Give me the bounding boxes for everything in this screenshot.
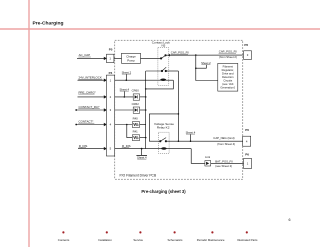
svg-text:CR60: CR60 (132, 89, 140, 93)
nav Schematics (174, 231, 176, 233)
connector P6 pin3 (244, 43, 252, 59)
svg-text:R41: R41 (133, 130, 139, 134)
node dot CONTACT_Rtn* end (75, 109, 77, 111)
charge pump U1 (122, 53, 141, 63)
filament regulator block (218, 63, 238, 91)
wire node to filament regulator (196, 55, 218, 80)
wire CR62 to bus (140, 109, 146, 111)
node relay feed (178, 113, 180, 115)
svg-text:Installation: Installation (98, 238, 112, 242)
key actuator (160, 78, 166, 81)
svg-text:Relay K2: Relay K2 (157, 126, 170, 130)
svg-text:Periodic Maintenance: Periodic Maintenance (197, 238, 225, 242)
horizontal pink header line (0, 28, 320, 30)
wire P4-4 to R40 (115, 124, 133, 126)
arrow into P4-1 (104, 79, 107, 82)
wire interlock loop top (146, 70, 162, 72)
flag Sheet 4 (pre_chrg) (119, 87, 129, 91)
wire sheet4 flag stub right (190, 134, 192, 141)
wire P4-3 to CR62 (115, 109, 134, 111)
relay coil (161, 147, 166, 150)
svg-text:P4: P4 (109, 71, 113, 75)
svg-text:R40: R40 (133, 117, 139, 121)
node sheet2 interlock (126, 79, 128, 81)
svg-text:Sheet 4: Sheet 4 (186, 130, 196, 134)
switch S1 (161, 55, 167, 59)
wire relay contact output (166, 140, 243, 142)
wire P4-5 coil line (115, 148, 192, 150)
wire AC_CAP (77, 57, 104, 59)
svg-text:Filament: Filament (223, 64, 234, 68)
svg-text:Sheet 2: Sheet 2 (201, 61, 211, 65)
svg-text:CAP_NEG (Gnd): CAP_NEG (Gnd) (213, 136, 234, 140)
svg-text:Service: Service (133, 238, 143, 242)
wire left bus (145, 71, 147, 149)
nav Installation (106, 231, 108, 233)
svg-text:P6: P6 (245, 152, 249, 156)
node sheet2 stub (195, 67, 197, 69)
svg-text:P6: P6 (244, 43, 248, 47)
wire right vertical drop (177, 71, 179, 141)
svg-text:Schematics: Schematics (168, 238, 183, 242)
svg-text:Generation’): Generation’) (220, 85, 235, 89)
svg-text:BAT_POS_FIl: BAT_POS_FIl (215, 159, 233, 163)
relay K2 (154, 122, 174, 154)
svg-text:Regulator,: Regulator, (222, 68, 235, 72)
node bus CR60 (145, 96, 147, 98)
svg-text:R_DIS: R_DIS (122, 144, 131, 148)
node sheet4 relay (190, 140, 192, 142)
label BAT_POS_FIl (215, 159, 233, 168)
switch S2 (161, 67, 166, 71)
diode CR60 (132, 89, 140, 101)
wire CONTACT* (76, 124, 104, 126)
flag Sheet 2 (interlock) (122, 70, 132, 74)
wire coil to link (191, 149, 205, 164)
label CONTACT* (78, 120, 94, 124)
node CAP_POS junction (195, 54, 197, 56)
arrow into P4-3 (104, 108, 107, 111)
nav Service (139, 231, 141, 233)
vertical pink margin line (28, 0, 30, 247)
nav Contents (62, 231, 64, 233)
wire R_DIS (78, 148, 104, 150)
resistor R40 (132, 117, 139, 128)
wire sheet4 ground stub (141, 149, 143, 156)
svg-text:CR62: CR62 (132, 102, 140, 106)
svg-text:Drive and: Drive and (222, 71, 234, 75)
svg-text:Detection: Detection (222, 75, 234, 79)
flag Sheet 2 (cap_pos) (201, 61, 211, 65)
svg-text:(see Sheet 2): (see Sheet 2) (215, 164, 232, 168)
arrow into P4-4 (104, 123, 107, 126)
wire charge pump to switch S1 (141, 57, 161, 59)
wire R40 to bus (140, 124, 146, 126)
svg-text:Sheet 4: Sheet 4 (119, 87, 129, 91)
wire P4-2 to CR60 (115, 96, 134, 98)
PCB dashed boundary box (115, 40, 243, 179)
wire CONTACT_Rtn* (76, 109, 104, 111)
label CONTACT_Rtn* (78, 105, 100, 109)
svg-text:CONTACT*: CONTACT* (79, 120, 95, 124)
svg-text:Circuits: Circuits (223, 78, 233, 82)
arrow into P4-2 (104, 95, 107, 98)
svg-text:P5: P5 (109, 48, 113, 52)
flag Sheet 4 (r_dis ground) (137, 155, 147, 159)
node rdis ground (141, 148, 143, 150)
node sheet4 pre_chrg (124, 96, 126, 98)
svg-text:(see ‘Volt: (see ‘Volt (222, 82, 233, 86)
svg-text:CAP_POS_FIl: CAP_POS_FIl (219, 50, 237, 54)
wire CAP_POS_FIl (165, 54, 242, 56)
label R_DIS inner (122, 144, 131, 148)
label 24V_INTERLOCK (78, 76, 102, 80)
svg-text:Sheet 4: Sheet 4 (137, 155, 147, 159)
link W1 (205, 155, 211, 166)
node contact branch (126, 124, 128, 126)
node bus-interlock loop (145, 88, 147, 90)
svg-text:24V_INTERLOCK: 24V_INTERLOCK (79, 76, 102, 80)
node relay out (178, 140, 180, 142)
wire branch to R41 (127, 125, 133, 138)
nav Illustrated Parts (246, 231, 248, 233)
svg-text:Pre-charging (sheet 3): Pre-charging (sheet 3) (141, 189, 186, 194)
node dot CONTACT* end (75, 124, 77, 126)
svg-text:P6: P6 (245, 128, 249, 132)
flag Sheet 4 (relay out) (186, 130, 196, 134)
label AC_CAP (78, 53, 90, 57)
label CAP_NEG (213, 136, 235, 146)
svg-text:N5: N5 (161, 44, 165, 48)
resistor R41 (132, 130, 139, 141)
wire 24V_INTERLOCK (78, 79, 105, 81)
connector P6 pin4 (243, 128, 251, 146)
arrow into P5 (104, 57, 107, 60)
wire switch S2 to right corner (166, 70, 179, 72)
svg-text:Pre-Charging: Pre-Charging (33, 21, 64, 27)
svg-text:(from Sheet 2): (from Sheet 2) (219, 55, 237, 59)
wire relay feed (149, 114, 178, 141)
svg-text:Link: Link (205, 155, 211, 159)
label R_DIS left (79, 144, 88, 148)
sheet4 ground bar (136, 154, 147, 156)
svg-text:Pump: Pump (127, 58, 135, 62)
diode CR62 (132, 102, 140, 113)
connector P6 pin1 (244, 152, 252, 168)
svg-text:P/O Filament Driver PCB: P/O Filament Driver PCB (120, 174, 157, 178)
label CAP_POS_FIl left (171, 51, 189, 55)
wire P4-1 to key lock (115, 79, 174, 81)
wire sheet2 stub (196, 65, 207, 68)
wire sheet2 flag stub (125, 74, 127, 80)
wire P5 to charge pump (114, 57, 122, 59)
wire key loop return (146, 80, 174, 89)
svg-text:PRE_CHRG*: PRE_CHRG* (79, 90, 97, 94)
nav Periodic Maintenance (211, 231, 213, 233)
svg-text:CONTACT_Rtn*: CONTACT_Rtn* (79, 105, 101, 109)
arrow on CAP_POS_FIl wire (167, 54, 170, 57)
relay contact (160, 138, 167, 142)
node bus R41 (145, 137, 147, 139)
svg-text:Contents: Contents (58, 238, 70, 242)
label PRE_CHRG* (78, 90, 96, 94)
svg-text:CAP_POS_FIl: CAP_POS_FIl (171, 51, 189, 55)
footer nav (58, 231, 258, 242)
arrow into P4-5 (104, 147, 107, 150)
wire R41 to bus (140, 137, 146, 139)
node bus CR62 (145, 109, 147, 111)
connector P4 (106, 71, 114, 156)
svg-text:Sheet 2: Sheet 2 (122, 70, 132, 74)
svg-text:R_DIS: R_DIS (79, 144, 88, 148)
svg-text:(from Sheet 4): (from Sheet 4) (217, 142, 235, 146)
wire link to P6-1 (211, 162, 244, 164)
contact lock N5 (152, 41, 171, 86)
svg-text:6: 6 (289, 218, 291, 222)
connector P5 (107, 48, 114, 63)
wire CR60 to bus (140, 96, 146, 98)
wire sheet4 flag stub (123, 91, 125, 97)
label CAP_POS_FIl right (219, 50, 237, 59)
svg-text:Illustrated Parts: Illustrated Parts (237, 238, 258, 242)
wire PRE_CHRG* (78, 96, 105, 98)
svg-text:AC_CAP: AC_CAP (79, 53, 91, 57)
